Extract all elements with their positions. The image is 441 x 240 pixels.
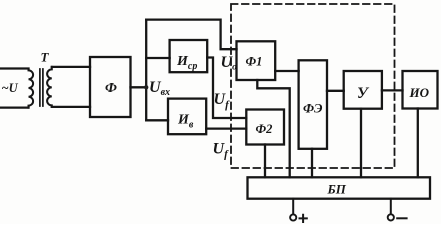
svg-text:Ф: Ф [105,81,117,96]
svg-text:Ф1: Ф1 [246,55,263,69]
wire node to Iv input [146,119,168,121]
dashed enclosure [231,4,395,168]
transformer T primary winding [29,69,34,108]
svg-text:Иср: Иср [176,54,197,72]
transformer T secondary winding [47,67,52,107]
terminal minus lead [390,199,392,215]
block U (amplifier) [344,71,382,109]
wire Isr output down to F2 upper input [207,58,246,119]
block Isr (measuring element) [170,40,208,72]
svg-text:~U: ~U [2,81,19,95]
node riser U_vx [145,20,147,121]
svg-text:Ив: Ив [177,113,194,131]
node junction dot [144,85,148,89]
wire F output to input node [131,86,147,88]
source ~U box [0,69,29,108]
wire FE to BP [311,149,313,178]
svg-text:Uf: Uf [213,141,230,161]
block FE (phase element) [299,60,327,149]
svg-text:У: У [357,85,370,102]
svg-text:ФЭ: ФЭ [303,101,323,116]
wire bypass to F1 input [146,20,236,50]
wire secondary bottom to block F [52,106,90,108]
terminal minus circle [388,214,394,220]
wire F1 power route down to BP [257,80,289,177]
svg-text:Uвх: Uвх [149,79,170,98]
terminal plus circle [290,214,296,220]
svg-text:БП: БП [327,182,347,197]
svg-text:Uо: Uо [221,54,238,73]
terminal plus lead [292,199,294,215]
block Iv (measuring element) [168,99,206,135]
svg-text:T: T [41,50,50,65]
svg-text:Ф2: Ф2 [256,122,273,136]
block F1 (former) [237,41,276,80]
wire F2 to BP [264,145,266,178]
terminal plus sign [300,215,307,222]
wire Iv output to F2 lower input [206,127,246,129]
wire FE to U amplifier [327,90,344,92]
block F (filter) [90,57,131,117]
wire U to IO [382,89,403,91]
wire U to BP [360,109,362,178]
svg-text:ИО: ИО [409,85,430,100]
terminal minus sign [397,217,406,219]
block BP (power supply) [248,177,431,198]
transformer T core [40,69,43,106]
wire IO to BP [417,109,419,178]
wire secondary top to block F [52,66,90,68]
block IO (executive organ) [403,71,438,109]
svg-text:Uf: Uf [214,91,231,111]
wire F1 to FE [275,70,298,72]
block F2 (former) [246,110,284,145]
wire node to Isr input [146,57,169,59]
